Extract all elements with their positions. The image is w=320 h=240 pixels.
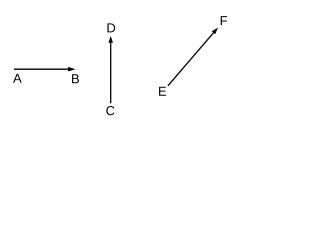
svg-text:F: F — [220, 13, 228, 28]
svg-text:D: D — [106, 20, 115, 35]
svg-text:C: C — [106, 103, 115, 118]
svg-text:E: E — [158, 84, 167, 99]
svg-text:B: B — [71, 71, 80, 86]
svg-text:A: A — [13, 71, 22, 86]
